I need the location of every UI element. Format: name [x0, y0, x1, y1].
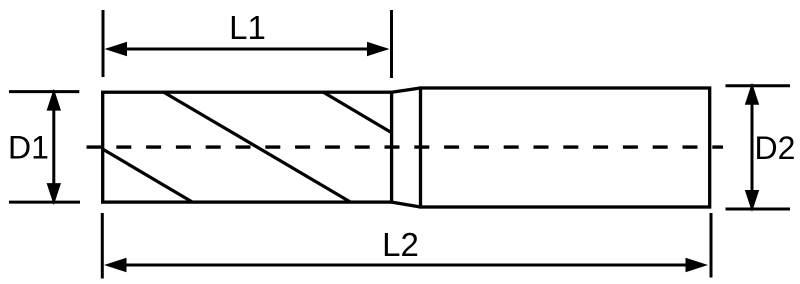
L1 dimension line [124, 48, 370, 51]
flute section body outline [103, 92, 392, 202]
svg-text:D2: D2 [755, 130, 796, 166]
D2 arrowhead top [745, 83, 759, 105]
flute diagonal 3 [323, 92, 391, 132]
flute diagonal 1 [103, 149, 193, 202]
D1 extension line bottom [9, 201, 80, 204]
L2 extension line right [710, 213, 713, 278]
D2 arrowhead bottom [745, 190, 759, 212]
svg-text:L2: L2 [382, 226, 419, 263]
D2 extension line bottom [726, 208, 791, 211]
svg-text:D1: D1 [8, 129, 49, 165]
L2 arrowhead right [686, 258, 709, 272]
L2 arrowhead left [104, 258, 127, 272]
D1 arrowhead top [47, 89, 61, 111]
L1 extension line right [390, 10, 393, 78]
D1 dimension line [52, 108, 55, 186]
D1 extension line top [9, 90, 79, 93]
L1 arrowhead right [367, 42, 390, 56]
L2 dimension line [123, 264, 688, 267]
neck transition bottom [392, 202, 421, 207]
centerline (dashed axis) [87, 145, 724, 148]
svg-text:L1: L1 [229, 9, 266, 46]
flute diagonal 2 [164, 92, 351, 202]
D1 arrowhead bottom [47, 183, 61, 205]
L1 arrowhead left [105, 42, 128, 56]
neck transition top [392, 88, 421, 92]
D2 extension line top [726, 84, 791, 87]
L1 extension line left [102, 10, 105, 77]
L2 extension line left [101, 213, 104, 279]
shank body outline [421, 88, 710, 207]
D2 dimension line [751, 103, 754, 191]
